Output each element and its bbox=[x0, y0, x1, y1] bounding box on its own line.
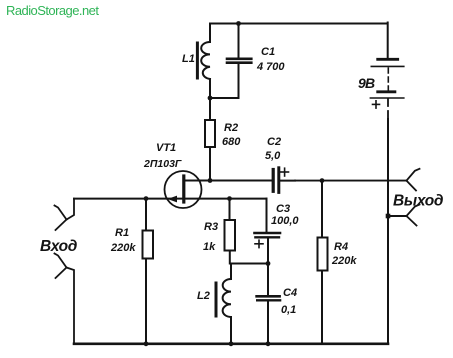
label C4 0,1 bbox=[281, 287, 297, 316]
svg-text:L2: L2 bbox=[197, 290, 210, 302]
svg-text:R1: R1 bbox=[115, 227, 129, 239]
resistor R4 bbox=[318, 181, 328, 344]
resistor R3 bbox=[225, 199, 236, 264]
battery GB1 9V bbox=[370, 23, 403, 109]
svg-text:C4: C4 bbox=[283, 287, 297, 299]
capacitor C3 bbox=[255, 199, 281, 264]
label VT1 2П103Г bbox=[143, 142, 182, 170]
svg-text:C3: C3 bbox=[276, 203, 290, 215]
terminal output bottom bbox=[407, 205, 420, 226]
capacitor C2 bbox=[273, 168, 288, 193]
svg-text:R4: R4 bbox=[334, 241, 348, 253]
node R4 top junction bbox=[320, 178, 325, 183]
wire gate-source line bbox=[74, 198, 267, 200]
resistor R2 bbox=[205, 98, 215, 181]
wire drain line bbox=[184, 180, 272, 182]
svg-text:220k: 220k bbox=[331, 255, 357, 267]
label C1 4700 bbox=[256, 46, 285, 73]
svg-text:4 700: 4 700 bbox=[256, 61, 285, 73]
label C2 5,0 bbox=[265, 136, 281, 162]
node source-R3 junction bbox=[227, 196, 232, 201]
svg-text:C1: C1 bbox=[261, 46, 275, 58]
node gate-R1 junction bbox=[144, 196, 149, 201]
svg-text:C2: C2 bbox=[267, 136, 281, 148]
svg-text:100,0: 100,0 bbox=[271, 215, 299, 227]
svg-text:Вход: Вход bbox=[40, 238, 78, 255]
svg-text:Выход: Выход bbox=[393, 193, 444, 210]
svg-text:VT1: VT1 bbox=[156, 142, 176, 154]
node R1 bottom junction bbox=[144, 341, 149, 346]
svg-text:R2: R2 bbox=[224, 122, 238, 134]
terminal input bottom bbox=[55, 254, 75, 345]
svg-text:2П103Г: 2П103Г bbox=[143, 158, 182, 170]
terminal output top bbox=[407, 169, 420, 191]
inductor L2 bbox=[216, 264, 231, 345]
label R3 1k bbox=[203, 221, 218, 253]
node output bottom stub junction bbox=[386, 214, 391, 219]
label C3 100,0 bbox=[271, 203, 299, 227]
node C4 bottom junction bbox=[266, 341, 271, 346]
wire bottom rail bbox=[74, 342, 388, 345]
wire right vertical (battery to bottom rail) bbox=[387, 99, 389, 120]
node tank bottom junction bbox=[208, 96, 213, 101]
svg-text:0,1: 0,1 bbox=[281, 304, 296, 316]
svg-text:9В: 9В bbox=[358, 75, 375, 91]
inductor L1 bbox=[197, 24, 210, 99]
terminal input top bbox=[55, 199, 75, 230]
node drain junction bbox=[208, 178, 213, 183]
resistor R1 bbox=[143, 199, 154, 344]
transistor VT1 bbox=[165, 171, 202, 208]
svg-text:L1: L1 bbox=[182, 53, 195, 65]
label R4 220k bbox=[331, 241, 357, 267]
svg-text:5,0: 5,0 bbox=[265, 150, 281, 162]
label R1 220k bbox=[110, 227, 136, 254]
svg-text:RadioStorage.net: RadioStorage.net bbox=[6, 3, 99, 18]
wire output bottom stub bbox=[388, 215, 407, 217]
node A junction bbox=[266, 261, 271, 266]
capacitor C1 bbox=[211, 24, 252, 99]
svg-text:680: 680 bbox=[222, 136, 241, 148]
capacitor C4 bbox=[257, 264, 281, 345]
wire output line bbox=[281, 180, 296, 182]
node top tank/C1 junction bbox=[236, 21, 241, 26]
svg-text:R3: R3 bbox=[204, 221, 218, 233]
svg-text:1k: 1k bbox=[203, 241, 216, 253]
node L2 bottom junction bbox=[229, 341, 234, 346]
wire top rail bbox=[210, 23, 388, 25]
svg-text:220k: 220k bbox=[110, 242, 136, 254]
label R2 680 bbox=[222, 122, 241, 148]
wire node A (R3/C3 to L2/C4) bbox=[230, 263, 268, 265]
